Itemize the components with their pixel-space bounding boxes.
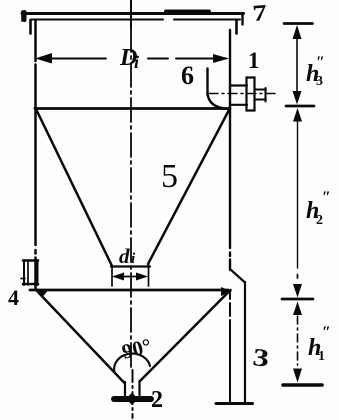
svg-text:″: ″ [322, 324, 331, 341]
svg-text:3: 3 [316, 74, 323, 89]
svg-text:″: ″ [322, 189, 331, 206]
svg-text:7: 7 [252, 0, 268, 26]
svg-text:6: 6 [181, 61, 194, 90]
svg-text:3: 3 [251, 344, 270, 373]
svg-text:2: 2 [151, 387, 163, 413]
svg-text:i: i [134, 52, 139, 72]
svg-text:d: d [119, 244, 130, 268]
svg-text:2: 2 [316, 213, 323, 228]
svg-text:1: 1 [318, 349, 325, 364]
svg-text:1: 1 [248, 48, 260, 73]
svg-text:4: 4 [8, 285, 19, 310]
svg-text:″: ″ [316, 54, 325, 71]
svg-text:5: 5 [161, 158, 178, 195]
